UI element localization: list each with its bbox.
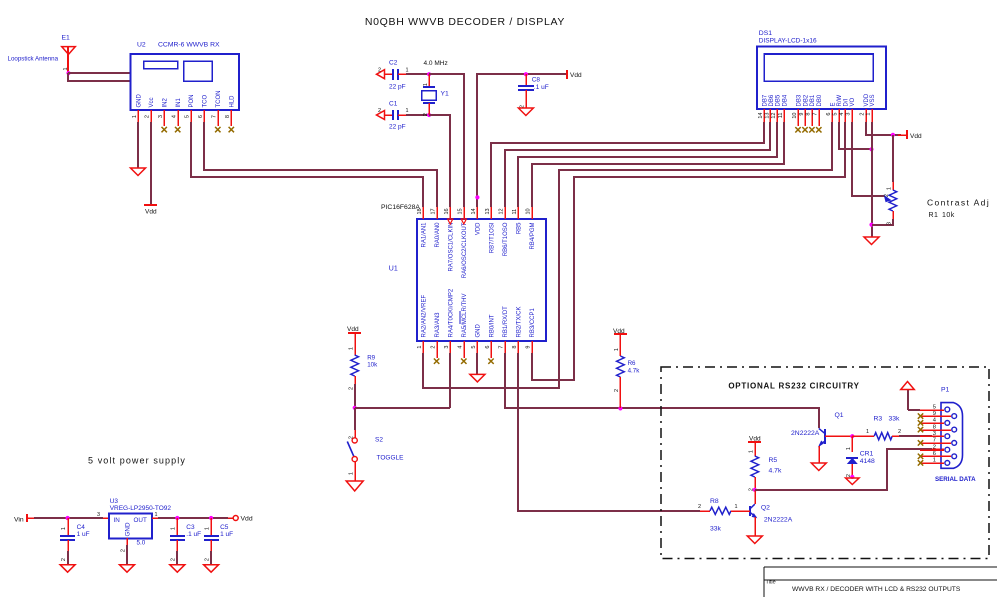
svg-text:1: 1	[348, 347, 354, 350]
svg-text:1 uF: 1 uF	[77, 531, 90, 538]
svg-text:1: 1	[417, 346, 423, 349]
svg-text:Q1: Q1	[835, 412, 844, 419]
svg-text:18: 18	[417, 208, 423, 214]
svg-text:10k: 10k	[367, 362, 378, 369]
svg-text:RB4/PGM: RB4/PGM	[530, 223, 536, 250]
svg-text:1: 1	[748, 450, 754, 453]
svg-text:12: 12	[498, 208, 504, 214]
svg-text:1: 1	[348, 472, 354, 475]
svg-text:6: 6	[826, 113, 832, 116]
svg-text:6: 6	[198, 115, 204, 118]
svg-text:1: 1	[887, 187, 893, 190]
svg-text:Vdd: Vdd	[241, 516, 253, 523]
svg-text:2: 2	[171, 558, 177, 561]
svg-text:P1: P1	[941, 387, 950, 394]
svg-text:5 volt power supply: 5 volt power supply	[88, 456, 186, 466]
svg-text:VSS: VSS	[870, 94, 876, 106]
svg-text:10: 10	[526, 208, 532, 214]
svg-text:7: 7	[498, 346, 504, 349]
svg-text:RB2/TX/CK: RB2/TX/CK	[517, 306, 523, 337]
svg-text:Vdd: Vdd	[570, 72, 582, 79]
svg-text:RA7/OSC1/CLKIN: RA7/OSC1/CLKIN	[449, 223, 455, 272]
svg-text:8: 8	[512, 346, 518, 349]
svg-text:DB4: DB4	[783, 94, 789, 106]
svg-text:C4: C4	[77, 524, 86, 531]
svg-text:3: 3	[846, 113, 852, 116]
svg-text:5: 5	[833, 113, 839, 116]
svg-text:DB0: DB0	[817, 94, 823, 106]
svg-text:2: 2	[614, 389, 620, 392]
svg-text:Vin: Vin	[14, 517, 24, 524]
svg-text:2: 2	[898, 429, 901, 435]
svg-text:DISPLAY-LCD-1x16: DISPLAY-LCD-1x16	[759, 38, 817, 45]
svg-text:1: 1	[155, 512, 158, 518]
svg-text:8: 8	[806, 113, 812, 116]
svg-text:RB1/RX/DT: RB1/RX/DT	[503, 306, 509, 338]
svg-text:DB1: DB1	[810, 94, 816, 106]
svg-text:22 pF: 22 pF	[389, 84, 406, 91]
svg-text:9: 9	[933, 411, 936, 417]
svg-text:12: 12	[771, 113, 777, 119]
svg-text:2: 2	[378, 67, 381, 73]
svg-text:TCO: TCO	[203, 95, 209, 108]
svg-text:RA3/AN3: RA3/AN3	[435, 312, 441, 338]
svg-text:2: 2	[698, 504, 701, 510]
svg-text:2: 2	[144, 115, 150, 118]
svg-text:1 uF: 1 uF	[220, 531, 233, 538]
svg-text:GND: GND	[125, 522, 132, 536]
svg-text:22 pF: 22 pF	[389, 124, 406, 131]
svg-text:Vdd: Vdd	[145, 209, 157, 216]
svg-text:C5: C5	[220, 524, 229, 531]
svg-text:C8: C8	[532, 77, 541, 84]
svg-text:RA2/AN2/VREF: RA2/AN2/VREF	[421, 294, 427, 337]
svg-text:.1 uF: .1 uF	[534, 84, 549, 91]
svg-text:RA6/OSC2/CLKOUT: RA6/OSC2/CLKOUT	[462, 222, 468, 278]
svg-text:TOGGLE: TOGGLE	[377, 455, 405, 462]
svg-text:1: 1	[846, 447, 852, 450]
svg-text:R/W: R/W	[837, 95, 843, 107]
svg-text:Y1: Y1	[441, 91, 450, 98]
svg-text:VDD: VDD	[476, 222, 482, 235]
svg-text:7: 7	[813, 113, 819, 116]
svg-text:33k: 33k	[710, 526, 722, 533]
svg-text:C2: C2	[389, 60, 398, 67]
svg-text:3: 3	[933, 431, 936, 437]
svg-text:OUT: OUT	[134, 517, 147, 524]
svg-text:U2: U2	[137, 42, 146, 49]
svg-text:10: 10	[792, 113, 798, 119]
svg-text:7: 7	[212, 115, 218, 118]
svg-text:17: 17	[430, 208, 436, 214]
svg-text:1: 1	[406, 108, 409, 114]
svg-text:1: 1	[423, 83, 429, 86]
svg-text:RA4/T0CKI/CMP2: RA4/T0CKI/CMP2	[449, 288, 455, 337]
svg-text:2: 2	[348, 387, 354, 390]
svg-text:1: 1	[63, 67, 69, 70]
svg-text:E1: E1	[62, 35, 71, 42]
svg-text:CR1: CR1	[860, 451, 874, 458]
svg-text:5.0: 5.0	[137, 540, 146, 547]
svg-text:C1: C1	[389, 100, 398, 107]
svg-text:2: 2	[933, 445, 936, 451]
svg-text:14: 14	[758, 113, 764, 119]
svg-text:2: 2	[423, 113, 429, 116]
svg-text:IN: IN	[114, 517, 121, 524]
svg-text:RA0/AN0: RA0/AN0	[435, 222, 441, 248]
svg-text:2: 2	[205, 558, 211, 561]
svg-text:RB6/T1OSO: RB6/T1OSO	[503, 222, 509, 256]
svg-text:HLD: HLD	[230, 95, 236, 108]
svg-text:8: 8	[933, 424, 936, 430]
svg-text:5: 5	[933, 404, 936, 410]
svg-text:Vdd: Vdd	[613, 328, 625, 335]
svg-text:6: 6	[933, 451, 936, 457]
svg-text:1: 1	[933, 458, 936, 464]
svg-text:13: 13	[485, 208, 491, 214]
svg-text:9: 9	[526, 346, 532, 349]
svg-text:U1: U1	[389, 266, 398, 273]
svg-text:1: 1	[866, 429, 869, 435]
svg-text:R3: R3	[874, 416, 883, 423]
svg-text:1: 1	[132, 115, 138, 118]
svg-text:4: 4	[172, 115, 178, 118]
svg-text:D/I: D/I	[844, 99, 850, 107]
svg-text:2: 2	[121, 549, 127, 552]
svg-text:R9: R9	[367, 355, 375, 362]
svg-text:RB5: RB5	[517, 222, 523, 234]
svg-text:2: 2	[430, 346, 436, 349]
svg-text:11: 11	[778, 113, 784, 119]
svg-text:4.0 MHz: 4.0 MHz	[424, 60, 448, 67]
svg-text:VO: VO	[850, 97, 856, 106]
svg-text:CCMR-6 WWVB RX: CCMR-6 WWVB RX	[158, 42, 220, 49]
svg-text:8: 8	[225, 115, 231, 118]
svg-text:Q2: Q2	[761, 505, 770, 512]
svg-text:Title: Title	[766, 580, 776, 586]
svg-text:R1: R1	[929, 212, 939, 219]
svg-text:R5: R5	[769, 457, 778, 464]
svg-text:2: 2	[378, 108, 381, 114]
svg-text:Vdd: Vdd	[347, 326, 359, 333]
svg-text:10k: 10k	[942, 212, 955, 219]
svg-text:Vcc: Vcc	[149, 97, 155, 107]
svg-text:2N2222A: 2N2222A	[764, 517, 793, 524]
svg-text:TCON: TCON	[216, 91, 222, 108]
svg-text:GND: GND	[476, 324, 482, 338]
svg-text:IN1: IN1	[176, 98, 182, 108]
svg-text:VREG-LP2950-TO92: VREG-LP2950-TO92	[110, 505, 172, 512]
svg-text:RB7/T1OSI: RB7/T1OSI	[489, 222, 495, 253]
svg-text:GND: GND	[136, 94, 142, 108]
svg-text:DB3: DB3	[796, 94, 802, 106]
svg-text:N0QBH WWVB DECODER / DISPLAY: N0QBH WWVB DECODER / DISPLAY	[365, 16, 565, 28]
svg-text:3: 3	[887, 222, 893, 225]
svg-text:4: 4	[458, 346, 464, 349]
svg-text:4.7k: 4.7k	[769, 468, 782, 475]
svg-text:.1 uF: .1 uF	[186, 531, 201, 538]
svg-text:DB2: DB2	[803, 94, 809, 106]
svg-text:Loopstick Antenna: Loopstick Antenna	[8, 56, 59, 63]
svg-text:3: 3	[158, 115, 164, 118]
svg-text:2: 2	[884, 194, 890, 197]
svg-text:2: 2	[61, 558, 67, 561]
svg-text:DS1: DS1	[759, 30, 772, 37]
svg-text:DB5: DB5	[776, 94, 782, 106]
svg-text:R6: R6	[628, 360, 636, 367]
svg-text:33k: 33k	[889, 416, 901, 423]
svg-text:3: 3	[97, 512, 100, 518]
svg-text:11: 11	[512, 209, 518, 215]
svg-text:5: 5	[185, 115, 191, 118]
svg-text:16: 16	[444, 208, 450, 214]
svg-text:S2: S2	[375, 437, 383, 444]
svg-text:R8: R8	[710, 498, 719, 505]
svg-text:1: 1	[61, 527, 67, 530]
svg-text:1: 1	[406, 67, 409, 73]
svg-text:4: 4	[839, 113, 845, 116]
svg-text:15: 15	[458, 208, 464, 214]
svg-text:1: 1	[205, 527, 211, 530]
svg-text:2N2222A: 2N2222A	[791, 430, 820, 437]
svg-text:RB0/INT: RB0/INT	[489, 314, 495, 337]
svg-text:1: 1	[865, 113, 871, 116]
svg-text:RA5/MCLR/THV: RA5/MCLR/THV	[462, 293, 468, 337]
svg-text:7: 7	[933, 438, 936, 444]
svg-text:Vdd: Vdd	[749, 436, 761, 443]
svg-text:DB6: DB6	[769, 94, 775, 106]
svg-text:WWVB RX / DECODER WITH LCD: WWVB RX / DECODER WITH LCD & RS232 OUTPU…	[792, 586, 961, 593]
svg-text:RB3/CCP1: RB3/CCP1	[530, 307, 536, 337]
svg-text:RA1/AN1: RA1/AN1	[421, 222, 427, 248]
svg-text:4148: 4148	[860, 458, 875, 465]
svg-text:C3: C3	[186, 524, 195, 531]
svg-text:1: 1	[614, 348, 620, 351]
svg-text:E: E	[830, 102, 836, 106]
svg-text:DB7: DB7	[762, 94, 768, 106]
svg-text:9: 9	[799, 113, 805, 116]
svg-text:Vdd: Vdd	[910, 133, 922, 140]
svg-text:PON: PON	[189, 94, 195, 107]
svg-text:6: 6	[485, 346, 491, 349]
svg-text:IN2: IN2	[163, 98, 169, 108]
svg-text:4.7k: 4.7k	[628, 368, 641, 375]
svg-text:3: 3	[444, 346, 450, 349]
svg-text:1: 1	[171, 527, 177, 530]
svg-text:Contrast Adj: Contrast Adj	[927, 198, 990, 208]
svg-text:PIC16F628A: PIC16F628A	[381, 204, 420, 211]
svg-text:OPTIONAL RS232 CIRCUITRY: OPTIONAL RS232 CIRCUITRY	[728, 382, 859, 391]
svg-text:SERIAL DATA: SERIAL DATA	[935, 476, 976, 483]
svg-text:1: 1	[735, 504, 738, 510]
